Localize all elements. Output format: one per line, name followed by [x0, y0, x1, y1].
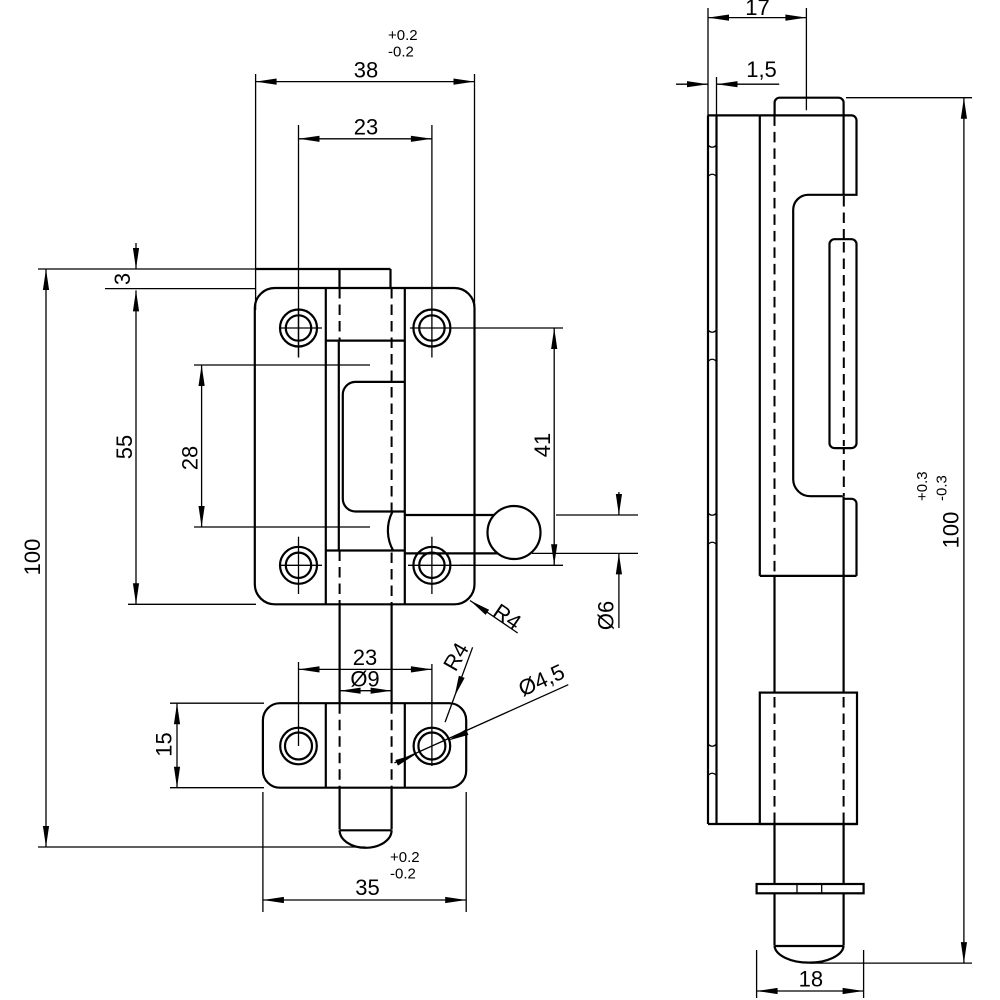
main mounting plate [255, 288, 475, 604]
dim 1,5: right extension line [716, 77, 718, 115]
svg-text:17: 17 [745, 0, 769, 20]
plate edge left face [707, 115, 709, 824]
FRONT VIEW [255, 269, 541, 848]
bolt left edge hidden (dashed) [774, 115, 776, 576]
bolt below keeper [775, 824, 844, 884]
handle neck top edge [405, 514, 496, 516]
svg-text:18: 18 [799, 967, 823, 992]
bolt tip shank [775, 893, 844, 945]
dim 17: extension lines [708, 8, 806, 115]
bolt below keeper: left edge [339, 788, 341, 830]
keeper plate [263, 703, 466, 788]
svg-text:55: 55 [112, 435, 137, 459]
hole 3 drill marks [708, 513, 717, 515]
svg-text:100: 100 [939, 512, 964, 549]
SIDE VIEW [708, 98, 864, 963]
svg-text:-0.3: -0.3 [934, 475, 951, 501]
keeper left screw hole [280, 728, 317, 765]
bolt visible between plates: right edge [391, 604, 393, 703]
dim 28: extension lines [194, 365, 370, 527]
dim 23 top: dimension line [299, 138, 432, 140]
dim 38: dimension line [256, 81, 475, 83]
hole 4 drill marks [708, 744, 717, 746]
bolt top tab: top edge [255, 268, 391, 270]
dim O9: dimension line [340, 690, 392, 692]
retaining clip bar [757, 884, 864, 893]
dim 1,5: left arrow outside [676, 83, 708, 85]
channel housing outline [760, 115, 857, 496]
dim 28: vertical line [201, 365, 203, 527]
svg-text:41: 41 [530, 433, 555, 457]
keeper right screw hole [414, 728, 451, 765]
dim 41: extension lines [410, 328, 563, 565]
svg-text:-0.2: -0.2 [388, 44, 414, 61]
svg-text:Ø6: Ø6 [594, 601, 619, 630]
dim 15: extension lines [170, 703, 264, 788]
svg-text:+0.3: +0.3 [914, 471, 931, 501]
bolt top tab: right edge [389, 269, 391, 288]
plate and keeper bottom edge [708, 823, 857, 825]
dim 38: extension lines [256, 74, 475, 310]
dim 18: dimension line [757, 990, 864, 992]
guide channel left edge [325, 288, 327, 604]
bolt top paddle [775, 98, 844, 116]
dim 1,5: right arrow with tail [717, 83, 780, 85]
dim 3: lower extension line [105, 288, 256, 290]
bolt right edge upper solid [842, 115, 844, 194]
handle neck left silhouette arc [388, 512, 394, 551]
channel bottom edge [760, 575, 857, 577]
svg-text:1,5: 1,5 [746, 57, 777, 82]
lower guide band top edge [326, 549, 405, 551]
dim O6: vertical line with outside arrows [618, 492, 620, 628]
svg-text:100: 100 [20, 539, 45, 576]
dim 100 right: top extension line [846, 97, 972, 99]
dim 100 right: bottom extension line [810, 962, 972, 964]
dim 35: dimension line [263, 899, 466, 901]
keeper channel right edge [404, 703, 406, 788]
svg-text:35: 35 [355, 875, 379, 900]
bolt hidden edges across keeper (dashed) [775, 697, 844, 823]
keeper channel left edge [325, 703, 327, 788]
bolt top tab: left edge [338, 269, 340, 288]
clip bar seams [797, 884, 822, 893]
upper-right screw hole [413, 310, 450, 347]
upper guide band bottom edge [326, 340, 405, 342]
bolt tip dome [775, 946, 844, 963]
plate edge right face [715, 115, 717, 824]
keeper side profile [760, 693, 857, 824]
bolt tip chord [340, 829, 392, 831]
lower-left screw hole [280, 547, 317, 584]
dim 18: extension lines [757, 950, 864, 998]
dim 55: bottom extension line [128, 603, 256, 605]
svg-text:28: 28 [178, 446, 203, 470]
svg-text:3: 3 [110, 273, 135, 285]
dim 100 left: bottom extension line [38, 846, 366, 848]
lower-right screw hole [413, 547, 450, 584]
bolt right edge hidden (dashed) [843, 196, 845, 496]
svg-text:Ø9: Ø9 [350, 667, 379, 692]
window opening in channel [343, 382, 405, 512]
dim 41: vertical line [553, 328, 555, 565]
svg-text:+0.2: +0.2 [388, 27, 418, 44]
hole 2 drill marks [708, 330, 717, 332]
svg-text:15: 15 [152, 732, 177, 756]
bolt below keeper: right edge [391, 788, 393, 830]
dim 23 keeper: dimension line [299, 668, 432, 670]
dim 17: dimension line [708, 17, 806, 19]
plate top edge [708, 114, 760, 116]
bolt visible between plates: left edge [339, 604, 341, 703]
dim 3 / 55: shared vertical line [135, 290, 137, 604]
channel left face [759, 115, 761, 576]
bolt hidden edge through knob (dashed) [843, 242, 845, 446]
bolt hidden edges across keeper (dashed) [340, 703, 392, 788]
svg-text:-0.2: -0.2 [390, 866, 416, 883]
diameter label O4,5: leader [394, 685, 568, 763]
guide channel right edge [404, 288, 406, 604]
svg-text:23: 23 [354, 115, 378, 140]
dim 100 left: top extension line [38, 268, 255, 270]
bolt hidden right edge (dashed) [391, 288, 393, 512]
dim 15: vertical line [176, 703, 178, 788]
dim 100 left: vertical line [45, 269, 47, 847]
handle knob circle [488, 506, 541, 559]
upper-left hole crosshair [279, 310, 322, 358]
radius label R4 lower: leader [445, 647, 473, 722]
lower guide loop [843, 499, 857, 576]
radius label R4 upper: leader [470, 601, 518, 634]
hole 1 drill marks [708, 145, 717, 147]
dim 23 top: extension/center lines [299, 125, 432, 358]
dim 3: vertical line above [135, 243, 137, 269]
bolt hidden left edge (dashed) [339, 288, 341, 341]
bolt edge visible in window [338, 342, 340, 551]
bolt edges visible below channel [775, 496, 844, 692]
dim O6: extension lines [532, 515, 638, 553]
keeper left hole crosshair [298, 662, 300, 746]
bolt rounded tip [340, 830, 392, 848]
dim 35: extension lines [263, 792, 466, 912]
handle neck bottom edge [405, 552, 497, 554]
upper-left screw hole [280, 310, 317, 347]
lower-left hole crosshair [279, 537, 322, 594]
keeper right hole crosshair [431, 664, 433, 766]
lower-right hole crosshair [408, 537, 471, 594]
dim 100 right: vertical line [963, 98, 965, 963]
knob side profile [830, 239, 857, 448]
bolt tip chord [775, 945, 844, 947]
svg-text:+0.2: +0.2 [390, 849, 420, 866]
svg-text:38: 38 [354, 58, 378, 83]
